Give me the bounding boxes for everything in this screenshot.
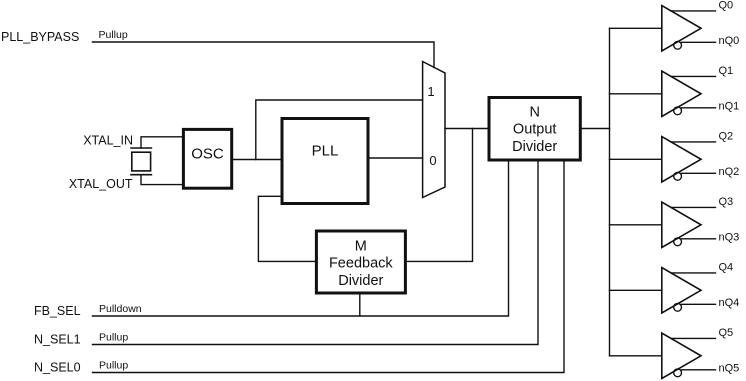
wire Q5 output: [671, 337, 716, 339]
inversion bubble buffer 0: [674, 41, 682, 49]
wire PLL output to mux input 0: [368, 157, 423, 159]
svg-text:FB_SEL: FB_SEL: [34, 304, 81, 318]
wire Q1 output: [671, 75, 716, 77]
svg-text:Q5: Q5: [719, 327, 734, 339]
wire feedback tap down to M divider: [405, 129, 472, 262]
wire nQ2 output: [682, 172, 716, 174]
crystal Y1 body: [132, 152, 151, 171]
buffer triangle 4: [662, 268, 701, 313]
wire mux output to N divider: [445, 128, 489, 130]
wire Q2 output: [671, 141, 716, 143]
wire Q4 output: [671, 272, 716, 274]
wire Q0 output: [671, 10, 716, 12]
inversion bubble buffer 5: [674, 369, 682, 377]
wire N divider output to buffer rail: [580, 128, 609, 130]
wire nQ5 output: [682, 369, 716, 371]
output buffer 2: [610, 131, 740, 183]
crystal Y1 top plate: [131, 147, 151, 149]
wire rail branch to buffer 3: [610, 224, 662, 226]
svg-text:N_SEL1: N_SEL1: [34, 333, 81, 347]
output buffer 0: [610, 0, 740, 51]
svg-text:Q3: Q3: [719, 196, 734, 208]
wire rail branch to buffer 4: [610, 289, 662, 291]
svg-text:Pullup: Pullup: [99, 360, 128, 372]
wire N_SEL0: [93, 160, 565, 373]
wire FB_SEL: [93, 160, 509, 316]
wire XTAL_IN to OSC: [141, 137, 183, 148]
wire nQ0 output: [682, 41, 716, 43]
wire nQ1 output: [682, 107, 716, 109]
wire OSC output to PLL: [232, 159, 282, 161]
svg-text:XTAL_IN: XTAL_IN: [83, 134, 133, 148]
inversion bubble buffer 4: [674, 303, 682, 311]
mux body: [423, 62, 445, 198]
crystal Y1 bottom plate: [131, 174, 151, 176]
svg-text:nQ3: nQ3: [719, 232, 740, 244]
svg-text:N: N: [529, 105, 539, 121]
svg-text:M: M: [355, 239, 367, 255]
output buffer 1: [610, 65, 740, 117]
svg-text:1: 1: [427, 84, 434, 99]
buffer triangle 5: [662, 333, 701, 378]
svg-text:Output: Output: [513, 122, 557, 138]
wire M divider output to PLL feedback input: [258, 196, 316, 261]
svg-text:Pulldown: Pulldown: [99, 303, 142, 315]
svg-text:PLL: PLL: [312, 143, 339, 160]
wire output rail: [609, 28, 611, 356]
mux PLL bypass: [423, 62, 445, 198]
buffer triangle 1: [662, 71, 701, 116]
output buffer 4: [610, 262, 740, 314]
wire N_SEL1: [93, 160, 539, 345]
wire XTAL_OUT to OSC: [141, 175, 183, 185]
output buffer 5: [610, 327, 740, 379]
svg-text:Q1: Q1: [719, 65, 734, 77]
inversion bubble buffer 1: [674, 107, 682, 115]
wire rail branch to buffer 5: [610, 355, 662, 357]
output buffer 3: [610, 196, 740, 248]
svg-text:PLL_BYPASS: PLL_BYPASS: [1, 30, 79, 44]
wire PLL_BYPASS to mux select: [93, 42, 435, 68]
buffer triangle 0: [662, 6, 701, 51]
wire FB_SEL stub to M divider: [359, 293, 361, 316]
svg-text:Q4: Q4: [719, 262, 734, 274]
wire rail branch to buffer 2: [610, 158, 662, 160]
OSC box outline: [183, 129, 231, 188]
wire rail branch to buffer 1: [610, 93, 662, 95]
svg-text:Divider: Divider: [512, 139, 557, 155]
svg-text:Pullup: Pullup: [99, 29, 128, 41]
oscillator block OSC: [183, 129, 231, 188]
svg-text:nQ5: nQ5: [719, 363, 740, 375]
PLL box outline: [282, 119, 368, 204]
inversion bubble buffer 2: [674, 172, 682, 180]
wire Q3 output: [671, 206, 716, 208]
pll block PLL: [282, 119, 368, 204]
svg-text:Q2: Q2: [719, 131, 734, 143]
svg-text:nQ4: nQ4: [719, 297, 740, 309]
svg-text:Feedback: Feedback: [329, 256, 393, 272]
feedback divider block M: [316, 231, 405, 293]
N box outline: [489, 98, 580, 161]
output divider block N: [489, 98, 580, 161]
wire rail branch to buffer 0: [610, 27, 662, 29]
wire nQ3 output: [682, 238, 716, 240]
wire nQ4 output: [682, 303, 716, 305]
buffer triangle 2: [662, 137, 701, 182]
svg-text:N_SEL0: N_SEL0: [34, 361, 81, 375]
svg-text:XTAL_OUT: XTAL_OUT: [69, 177, 133, 191]
svg-text:OSC: OSC: [191, 146, 224, 163]
buffer triangle 3: [662, 202, 701, 247]
svg-text:0: 0: [429, 153, 436, 168]
svg-text:Q0: Q0: [719, 0, 734, 12]
inversion bubble buffer 3: [674, 238, 682, 246]
svg-text:nQ0: nQ0: [719, 35, 740, 47]
M box outline: [316, 231, 405, 293]
svg-text:Divider: Divider: [338, 273, 383, 289]
svg-text:Pullup: Pullup: [99, 332, 128, 344]
wire reference clock up to mux input 1: [256, 100, 423, 160]
svg-text:nQ1: nQ1: [719, 101, 740, 113]
svg-text:nQ2: nQ2: [719, 166, 740, 178]
